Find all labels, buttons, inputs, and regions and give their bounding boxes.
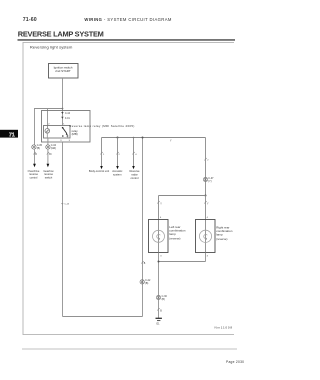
- svg-text:(B): (B): [37, 147, 40, 150]
- svg-text:switch: switch: [45, 176, 53, 180]
- svg-text:71: 71: [9, 132, 15, 138]
- svg-text:Page 2030: Page 2030: [226, 360, 244, 364]
- svg-text:Y: Y: [170, 141, 172, 143]
- svg-text:Reverse lamp relay (MDI Satell: Reverse lamp relay (MDI Satellite 2005): [69, 124, 134, 128]
- svg-text:3: 3: [160, 256, 162, 258]
- svg-text:2nd START: 2nd START: [55, 69, 71, 73]
- svg-text:Acoustic: Acoustic: [112, 169, 123, 173]
- svg-text:Reversing light system: Reversing light system: [30, 44, 73, 49]
- svg-text:Gearbox: Gearbox: [43, 169, 54, 173]
- svg-text:(B): (B): [145, 282, 148, 285]
- svg-text:REVERSE LAMP SYSTEM: REVERSE LAMP SYSTEM: [18, 30, 104, 39]
- svg-text:control: control: [130, 176, 138, 180]
- svg-text:(Y): (Y): [208, 180, 211, 183]
- svg-text:4: 4: [207, 217, 209, 219]
- svg-text:3: 3: [207, 256, 209, 258]
- svg-text:Y: Y: [160, 204, 162, 206]
- svg-text:4: 4: [160, 217, 162, 219]
- svg-text:2: 2: [207, 160, 209, 162]
- svg-text:Nm11008: Nm11008: [215, 326, 233, 330]
- svg-text:Overdrive: Overdrive: [28, 169, 40, 173]
- svg-text:4: 4: [135, 154, 137, 156]
- svg-text:Body-control unit: Body-control unit: [89, 169, 109, 173]
- svg-text:71-60: 71-60: [23, 17, 37, 23]
- svg-text:B: B: [35, 154, 37, 156]
- svg-text:(B): (B): [162, 298, 165, 301]
- svg-text:B: B: [160, 311, 162, 313]
- svg-text:(reverse): (reverse): [216, 237, 227, 241]
- svg-text:1: 1: [103, 154, 105, 156]
- svg-text:lamp: lamp: [169, 232, 176, 236]
- svg-text:system: system: [113, 173, 122, 177]
- svg-text:C-10: C-10: [65, 113, 71, 115]
- svg-text:reverse: reverse: [44, 172, 53, 176]
- svg-text:Y: Y: [207, 204, 209, 206]
- svg-text:(GR): (GR): [51, 147, 56, 150]
- svg-text:(MB): (MB): [72, 132, 78, 136]
- svg-text:F-01: F-01: [65, 118, 70, 120]
- svg-text:B: B: [144, 263, 146, 265]
- svg-text:lamp: lamp: [216, 233, 223, 237]
- svg-text:E1: E1: [157, 322, 161, 325]
- svg-text:WIRING - SYSTEM CIRCUIT DIAGRA: WIRING - SYSTEM CIRCUIT DIAGRAM: [84, 17, 171, 22]
- svg-text:C-13: C-13: [64, 204, 69, 206]
- svg-text:radar: radar: [131, 173, 137, 177]
- svg-text:Br: Br: [49, 153, 52, 156]
- svg-text:(reverse): (reverse): [169, 237, 180, 241]
- svg-text:control: control: [30, 176, 38, 180]
- svg-text:Reverse: Reverse: [129, 169, 140, 173]
- svg-text:2: 2: [119, 154, 121, 156]
- svg-text:reverse: reverse: [29, 172, 38, 176]
